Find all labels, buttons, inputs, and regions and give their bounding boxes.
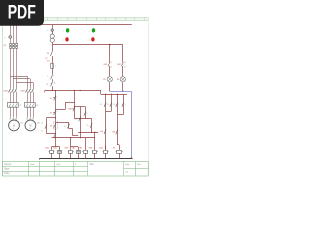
svg-text:13: 13 [110,62,112,64]
svg-text:14: 14 [41,131,43,133]
wire coil KA2 to bottom rail [78,153,80,158]
wire phase L3 vertical [16,21,18,118]
relay coil KA1 [53,147,61,154]
wire coil KM2 to bottom rail [70,153,72,158]
selector enclosure box [50,122,58,130]
terminal tick at rail left end [39,158,41,160]
svg-text:95: 95 [46,84,48,86]
lower contact on chain [54,134,56,138]
LED H4 red [89,37,95,41]
contact on x69 column [64,124,69,129]
relay coil KM2 [65,148,74,154]
latch contact KM1 13-14 [41,122,47,132]
motor M1 [9,120,25,131]
wire column x105.6 [105,94,106,150]
svg-text:Date: Date [30,163,35,166]
svg-text:KA2: KA2 [72,147,75,150]
wire jog x72 column [69,129,78,136]
svg-text:Folio: Folio [125,164,131,166]
emergency stop contact [47,75,54,80]
wire jog x117.3-x123.3 [117,114,123,116]
wire column x111.3 [111,94,112,112]
svg-text:x: x [63,39,64,41]
wire branch x85 column [85,107,87,119]
relay coil H5 [113,148,123,154]
wire coil feed 85 [85,138,87,150]
terminal tick R3 left end [44,91,46,93]
svg-text:KM2: KM2 [68,109,72,111]
disconnect switch S0 [47,51,53,56]
wire coil KA4 to bottom rail [105,153,107,158]
wire coil feed 119.2 [117,145,119,150]
svg-text:13: 13 [113,104,115,106]
svg-text:4: 4 [86,113,87,115]
motor M2 [25,120,41,131]
contact KM1 aux for lamp A [104,62,113,68]
svg-text:3: 3 [56,111,57,113]
svg-text:1: 1 [47,76,48,78]
wire neutral return blue [110,90,132,158]
svg-text:96: 96 [53,82,55,84]
svg-text:x: x [47,30,48,32]
PDF badge [0,0,44,26]
wire coil feed 94.9 [94,132,96,150]
LED H3 green [89,28,95,32]
contact on x123.3 [122,102,126,107]
svg-text:H5: H5 [113,148,115,150]
svg-text:H1: H1 [103,79,105,81]
page background [0,0,149,198]
wire interlock jog A [55,102,74,109]
relay coil KA3 [79,147,88,154]
thermal overload relay F1 [8,103,23,108]
wire coil feed jog 2 [71,138,79,150]
svg-text:KA4: KA4 [99,147,102,150]
wire lamp column B upper [122,45,124,92]
svg-text:1: 1 [125,104,126,106]
wire column x117.3 [117,94,118,145]
svg-text:KM1: KM1 [45,148,49,150]
wire lamp column A upper [109,45,111,92]
svg-text:S1: S1 [50,98,52,100]
contact KM2 aux for lamp B [117,62,126,68]
svg-text:Ech.: Ech. [57,164,62,166]
svg-text:KA1: KA1 [53,147,56,150]
node R2-lamp column junction [109,44,111,46]
svg-text:KM2: KM2 [65,148,69,150]
svg-text:13: 13 [124,62,126,64]
wire phase L1 vertical [10,21,12,118]
node rail-neutral junction [131,157,133,159]
svg-text:x: x [5,37,6,39]
contact on x111.3 [107,102,112,107]
wire to rail R3 [52,86,54,90]
wire branch x91 column [91,119,93,133]
motor terminal labels U V W [9,118,34,119]
wire column x123.3 [123,94,125,114]
svg-text:13: 13 [41,122,43,124]
contact KM1 aux on x105.6 [100,102,106,107]
svg-text:31: 31 [107,104,109,106]
contact on x85 column [84,111,88,115]
title block row lines [3,167,148,172]
relay coil KM1 [45,148,54,154]
wire coil KA1 to bottom rail [59,153,61,158]
relay coil KA4 [99,147,108,154]
wire bottom neutral rail [40,158,133,160]
wire branch rail at 106.7 [74,106,86,107]
title block vertical dividers [29,161,136,176]
svg-text:x: x [89,39,90,41]
wire right feed rail R4 [101,94,127,96]
wire lamp rail R2 [52,44,123,46]
node R3 junctions [52,90,81,91]
wire control rail R3 [45,90,101,92]
stop pushbutton S1 NC [50,96,58,101]
svg-text:Folio: Folio [4,172,10,175]
svg-text:Auteur: Auteur [4,163,11,166]
wire branch L3 to motor-2 feeder [16,82,33,84]
wire branch L1 to motor-2 feeder [10,76,27,78]
svg-text:Titre: Titre [89,163,94,166]
wire branch L2 to motor-2 feeder [13,78,30,80]
svg-text:KM3: KM3 [89,148,93,150]
svg-text:43: 43 [100,104,102,106]
wire coil H5 to bottom rail [119,153,121,158]
svg-text:61: 61 [64,126,66,128]
svg-text:14: 14 [124,66,126,68]
svg-text:14: 14 [110,66,112,68]
relay coil KA2 [72,147,81,154]
svg-text:2: 2 [56,96,57,98]
contact on x80 column [75,117,81,122]
wire coil feed jog 1 [52,138,60,150]
frame left border [2,17,4,176]
contact on x117.3 [113,102,118,107]
voltage tap symbol on L1 [5,36,12,39]
wire jog rail at 122.2 [55,122,69,128]
LED H1 green [63,28,69,32]
signal lamp H1 [103,77,112,82]
svg-text:x: x [63,30,64,32]
svg-text:M: M [13,123,15,127]
wire motor-2 feeder verticals [28,76,34,118]
wire coil KM1 to bottom rail [51,153,53,158]
thermal overload relay F2 [25,103,40,108]
relay coil KM3 [89,148,98,154]
wire jog x105.6-x111.3 [106,111,112,113]
wire latch branch KM1 aux [46,117,56,134]
svg-text:21: 21 [75,119,77,121]
measuring point symbol [47,29,54,32]
svg-text:PDF: PDF [8,2,36,24]
wire cross rail at 132.2 [78,132,98,133]
signal lamp H2 [117,77,126,82]
contactor KM2 power poles [21,89,34,93]
wire phase L2 vertical [13,21,15,118]
wire R2 feed down [52,45,54,52]
interlock contact KM2 NC [68,106,75,111]
control transformer T1 [50,34,54,42]
wire coil KM3 to bottom rail [94,153,96,158]
svg-text:x: x [89,30,90,32]
wire transformer to R2 [52,43,54,45]
contact on x91 column [87,123,93,128]
wire control feed from R1 [52,25,54,34]
fuse F4 [47,60,56,68]
wire fuse to stop contact [52,69,54,75]
svg-text:Date: Date [4,168,10,171]
svg-text:1: 1 [53,75,54,77]
svg-text:KM1: KM1 [104,64,108,66]
svg-text:H2: H2 [117,79,119,81]
svg-text:S2: S2 [50,113,52,115]
thermal relay NC contact F1 [46,82,55,87]
wire branch x80 column [80,107,82,138]
wire cross rail at 118.6 [74,118,91,119]
circuit breaker Q1 three-pole [4,44,18,49]
svg-text:M: M [29,123,31,127]
contact on x117.3 lower [112,130,117,135]
start pushbutton S2 NO [50,110,58,115]
wire branch KM2 interlock column [74,91,76,119]
wire switch to fuse [52,56,54,64]
svg-text:S3: S3 [50,125,52,127]
svg-text:2: 2 [55,66,56,68]
frame right border [148,17,150,176]
svg-text:KA3: KA3 [79,147,82,150]
wire branch S1 chain [55,91,57,138]
wire coil feed 105.6 [105,146,107,150]
wire control rail R1 [10,24,132,26]
svg-text:KM2: KM2 [117,64,121,66]
wire to thermal NC contact [52,79,54,81]
title block labels [4,163,142,175]
wire R3 corner down [100,91,102,95]
title block outline [3,162,149,177]
contactor KM1 power poles [4,89,17,93]
LED H2 red [63,37,69,41]
wire coil KA3 to bottom rail [85,153,87,158]
wire bottom distribution rail 137.8 [52,137,95,138]
svg-text:55: 55 [87,125,89,127]
drawing frame top band with column ticks [0,17,149,20]
timer contact marks on x105.6 [100,129,106,134]
